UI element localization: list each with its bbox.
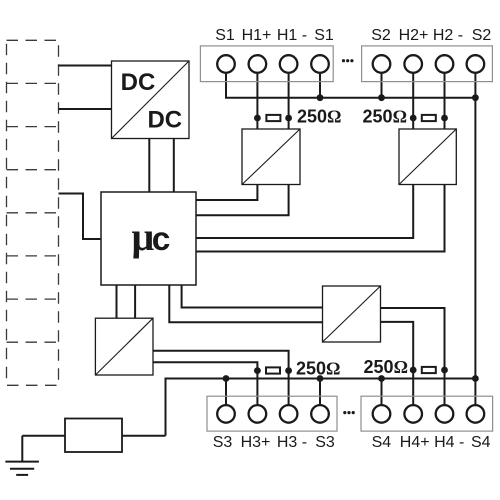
svg-text:μc: μc [132,214,171,259]
svg-text:H2 -: H2 - [433,27,463,44]
svg-text:S3: S3 [315,434,335,451]
svg-text:H3 -: H3 - [277,434,307,451]
svg-text:250Ω: 250Ω [297,107,341,127]
svg-text:S4: S4 [372,434,392,451]
svg-text:H1 -: H1 - [277,27,307,44]
svg-text:H1+: H1+ [242,27,272,44]
svg-text:250Ω: 250Ω [363,107,407,127]
svg-text:250Ω: 250Ω [296,358,340,378]
svg-text:DC: DC [121,69,156,96]
svg-text:S2: S2 [472,27,492,44]
svg-text:S3: S3 [213,434,233,451]
svg-text:S1: S1 [314,27,334,44]
svg-text:250Ω: 250Ω [364,357,408,377]
svg-text:S2: S2 [371,27,391,44]
svg-text:S1: S1 [215,27,235,44]
svg-text:H4+: H4+ [400,434,430,451]
svg-text:H4 -: H4 - [434,434,464,451]
svg-text:H2+: H2+ [399,27,429,44]
svg-text:S4: S4 [471,434,491,451]
svg-text:H3+: H3+ [241,434,271,451]
svg-text:DC: DC [147,107,182,134]
